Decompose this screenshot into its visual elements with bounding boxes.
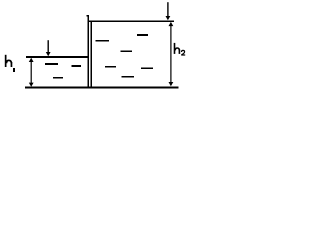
bottom base line [25,87,179,89]
middle wall left line [88,15,89,89]
diagram: two connected tanks with water heights h1 and h2 [0,0,209,94]
water dash right tank B [137,34,148,36]
label h1: letter h [5,55,13,67]
h1 measure double arrow [29,58,34,87]
water dash left tank 3 [53,77,63,79]
water dash left tank 1 [45,63,58,65]
middle wall top cap [86,15,89,17]
label h1: subscript 1 [13,68,15,72]
water dash left tank 2 [71,65,81,67]
water dash right tank C [121,50,132,52]
water dash right tank E [141,67,153,69]
right tank water surface line [88,20,174,22]
label h2: letter h [174,43,181,54]
label h2: subscript 2 [181,50,185,55]
h2 measure double arrow [169,22,174,86]
water dash right tank D [105,66,116,68]
right down arrow (pointer to right water surface) [166,2,171,20]
water dash right tank F [122,76,134,78]
middle wall right line [91,20,92,88]
left tank water surface line [26,56,89,58]
water dash right tank A [96,40,109,42]
left down arrow (pointer to left water surface) [46,40,51,56]
